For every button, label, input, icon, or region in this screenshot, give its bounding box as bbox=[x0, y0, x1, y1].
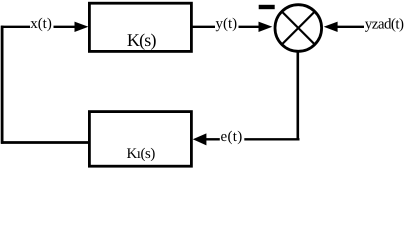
svg-text:x(t): x(t) bbox=[30, 16, 52, 32]
wire e(t) segment to arrow bbox=[205, 138, 220, 140]
minus sign bbox=[259, 5, 275, 9]
wire yzad(t) bbox=[337, 26, 364, 28]
arrowhead into Ki(s) bbox=[193, 133, 207, 145]
wire y(t) segment to arrow bbox=[239, 26, 261, 28]
summing junction X diagonal 1 bbox=[282, 12, 315, 45]
wire y(t) segment from K(s) bbox=[191, 26, 215, 28]
wire drop from summing junction bbox=[296, 51, 299, 140]
svg-text:y(t): y(t) bbox=[216, 16, 238, 32]
wire x(t) segment from corner bbox=[1, 26, 30, 28]
arrowhead into K(s) bbox=[75, 22, 89, 32]
feedback wire vertical left bbox=[1, 26, 4, 144]
feedback wire from Ki(s) left edge bbox=[1, 141, 89, 144]
summing junction X diagonal 2 bbox=[282, 12, 315, 45]
arrowhead from yzad into summing junction bbox=[324, 22, 338, 32]
block K(s) bbox=[89, 3, 191, 51]
wire e(t) segment from corner bbox=[244, 138, 299, 140]
block Ki(s) bbox=[89, 112, 191, 167]
wire x(t) segment to arrow bbox=[54, 26, 77, 28]
svg-text:yzad(t): yzad(t) bbox=[365, 17, 404, 33]
svg-text:e(t): e(t) bbox=[221, 129, 243, 145]
arrowhead into summing junction bbox=[259, 22, 273, 32]
svg-text:Kı(s): Kı(s) bbox=[126, 146, 155, 162]
summing junction circle bbox=[275, 5, 322, 52]
svg-text:K(s): K(s) bbox=[127, 30, 157, 50]
